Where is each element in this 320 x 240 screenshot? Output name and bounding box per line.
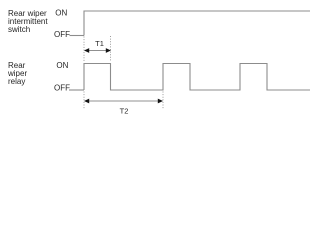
svg-text:T2: T2 (120, 107, 129, 116)
node: T2 right extension dashed line (162, 92, 164, 110)
wire: switch waveform rising edge and ON line (84, 11, 310, 36)
svg-text:T1: T1 (95, 39, 104, 48)
dimension arrow T2 (84, 99, 163, 104)
svg-text:OFF: OFF (54, 84, 70, 93)
wire: switch OFF stub (70, 35, 85, 37)
node: T1 right extension dashed line (110, 36, 112, 62)
node: T2 left extension dashed line (83, 92, 85, 110)
dimension arrow T1 (84, 48, 111, 53)
wire: relay pulse train (84, 64, 310, 91)
svg-text:switch: switch (8, 25, 30, 34)
svg-text:OFF: OFF (54, 30, 70, 39)
label: rear wiper relay (7, 61, 27, 86)
label: rear wiper intermittent switch (8, 9, 48, 34)
svg-text:ON: ON (56, 61, 68, 70)
wire: relay OFF stub (69, 89, 84, 91)
svg-text:relay: relay (8, 77, 25, 86)
svg-text:ON: ON (55, 8, 67, 17)
node: T1 left extension dashed line (83, 37, 85, 63)
